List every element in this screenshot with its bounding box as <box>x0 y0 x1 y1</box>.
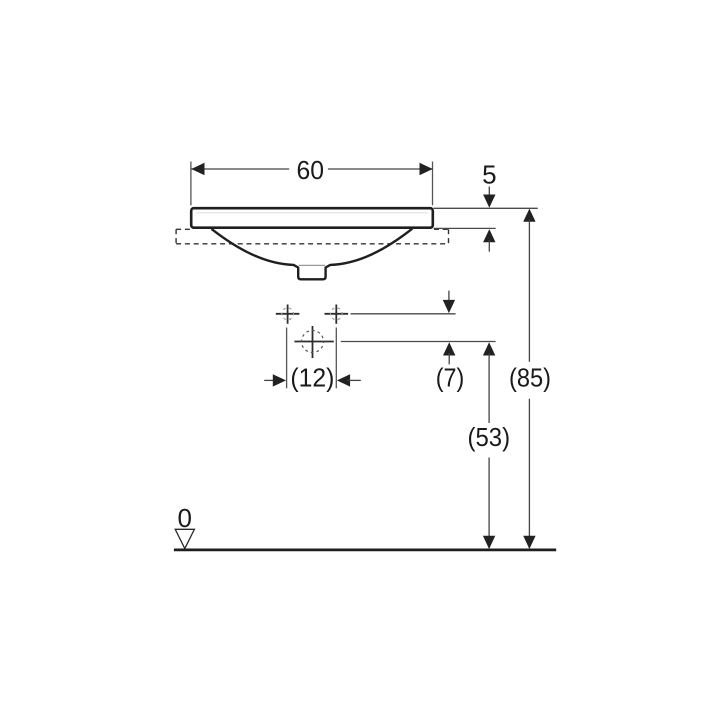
arrow 5 lower (up) <box>483 229 495 242</box>
datum triangle <box>175 529 194 548</box>
svg-text:5: 5 <box>482 160 496 190</box>
leader line rim top (right) <box>434 207 538 209</box>
extension line (12) left <box>286 328 288 389</box>
dimension (7): lower arrow (up) <box>443 342 455 355</box>
faucet hole large: dashed circle <box>302 331 324 353</box>
faucet hole small right: crosshair <box>325 305 349 324</box>
basin bowl with drain <box>212 229 413 280</box>
dimension (85): top arrow (up) <box>523 209 535 222</box>
arrow 5 upper (down) <box>488 187 490 207</box>
extension line right (60) <box>432 162 434 206</box>
dimension (53): top arrow (up) <box>483 342 495 355</box>
faucet hole small right: dashed circle <box>330 308 342 320</box>
dimension (85): lower stem + arrow (down) <box>528 399 530 548</box>
countertop cut-out (dashed box) <box>176 229 448 244</box>
drain inner edge (thin line) <box>299 264 325 266</box>
extension line (12) right <box>335 328 337 389</box>
rim inner faint edge <box>196 212 428 214</box>
leader line large hole level <box>341 341 496 343</box>
leader line countertop level (right) <box>434 227 496 229</box>
dimension (53): lower stem + arrow (down) <box>488 458 490 549</box>
floor line <box>174 549 556 552</box>
extension line left (60) <box>190 162 192 206</box>
faucet hole small left: dashed circle <box>282 308 294 320</box>
dimension (7): upper arrow (down) <box>448 291 450 312</box>
svg-text:(12): (12) <box>290 362 334 392</box>
arrow 60 left <box>191 163 204 175</box>
leader line small holes level <box>351 313 456 315</box>
dimension (12): left stem+arrow <box>264 379 275 381</box>
faucet hole large: crosshair <box>294 326 333 358</box>
dimension (12): right arrow+stem <box>337 374 350 386</box>
dimension line 60 <box>191 168 289 170</box>
faucet hole small left: crosshair <box>276 305 300 324</box>
svg-text:(7): (7) <box>436 362 465 392</box>
svg-text:(85): (85) <box>509 362 551 392</box>
arrow 60 right <box>420 163 433 175</box>
basin rim <box>191 208 433 228</box>
svg-text:(53): (53) <box>468 422 511 452</box>
svg-text:60: 60 <box>297 155 325 185</box>
